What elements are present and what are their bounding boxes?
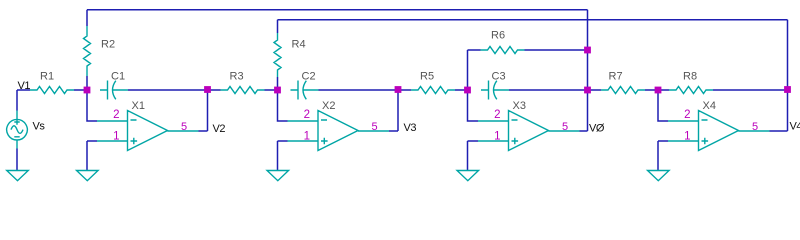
svg-text:5: 5 [181, 121, 187, 133]
svg-text:R2: R2 [101, 39, 115, 51]
svg-text:1: 1 [304, 131, 310, 143]
svg-text:2: 2 [684, 109, 690, 121]
svg-text:C2: C2 [302, 71, 316, 83]
svg-text:V2: V2 [213, 123, 226, 135]
svg-text:5: 5 [372, 121, 378, 133]
svg-text:R4: R4 [292, 39, 306, 51]
svg-text:5: 5 [562, 121, 568, 133]
svg-text:V1: V1 [18, 80, 31, 92]
svg-text:2: 2 [113, 109, 119, 121]
svg-text:C3: C3 [492, 71, 506, 83]
svg-text:X4: X4 [703, 100, 716, 112]
svg-text:X1: X1 [132, 100, 145, 112]
svg-text:VØ: VØ [589, 123, 605, 135]
svg-text:1: 1 [684, 131, 690, 143]
svg-text:X3: X3 [513, 100, 526, 112]
svg-text:R5: R5 [420, 71, 434, 83]
svg-text:V3: V3 [404, 122, 417, 134]
svg-text:2: 2 [304, 109, 310, 121]
svg-text:X2: X2 [322, 100, 335, 112]
svg-text:5: 5 [752, 121, 758, 133]
svg-text:1: 1 [113, 131, 119, 143]
svg-text:Vs: Vs [33, 121, 46, 133]
svg-text:R6: R6 [491, 30, 505, 42]
svg-text:R7: R7 [609, 71, 623, 83]
svg-text:2: 2 [494, 109, 500, 121]
svg-text:V4: V4 [790, 121, 800, 133]
svg-text:R8: R8 [683, 71, 697, 83]
svg-text:R3: R3 [230, 71, 244, 83]
svg-text:R1: R1 [40, 71, 54, 83]
svg-text:1: 1 [494, 131, 500, 143]
svg-text:C1: C1 [111, 71, 125, 83]
